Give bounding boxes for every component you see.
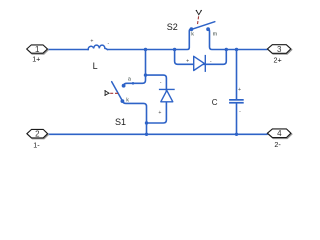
svg-text:2-: 2-: [274, 140, 281, 149]
svg-text:4: 4: [277, 129, 282, 138]
svg-text:+: +: [238, 87, 241, 93]
svg-text:-: -: [239, 108, 241, 114]
svg-text:a: a: [128, 76, 131, 82]
svg-text:1-: 1-: [33, 140, 40, 149]
svg-text:k: k: [191, 32, 194, 38]
svg-text:+: +: [90, 39, 93, 45]
svg-text:C: C: [212, 98, 218, 107]
svg-text:-: -: [108, 40, 110, 46]
svg-text:1+: 1+: [32, 54, 40, 63]
svg-text:S1: S1: [115, 117, 126, 127]
svg-text:-: -: [160, 80, 162, 86]
svg-text:k: k: [126, 98, 129, 104]
svg-text:L: L: [93, 61, 98, 71]
svg-text:m: m: [213, 32, 218, 38]
svg-text:+: +: [186, 59, 189, 65]
svg-text:2: 2: [35, 130, 40, 139]
svg-text:3: 3: [277, 45, 282, 54]
svg-text:S2: S2: [167, 22, 178, 32]
svg-text:+: +: [158, 110, 161, 116]
svg-text:1: 1: [35, 45, 40, 54]
svg-text:2+: 2+: [273, 55, 281, 64]
svg-text:-: -: [210, 58, 212, 64]
